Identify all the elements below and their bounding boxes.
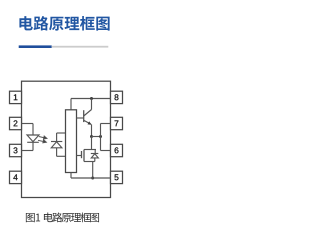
junction pin7/6 tie <box>99 135 102 138</box>
wire base drive <box>77 117 84 119</box>
divider gray segment <box>52 46 109 48</box>
divider blue segment <box>19 45 52 48</box>
LED cathode bar <box>27 141 39 143</box>
photodiode PD1 cathode bar <box>51 141 62 143</box>
body diode D2 cathode bar <box>91 153 99 155</box>
wire source down to bottom rail <box>92 162 94 179</box>
wire control block top stub <box>70 99 72 110</box>
pin 8 box <box>111 91 123 103</box>
transistor Q1 collector diagonal <box>84 110 92 117</box>
wire output node to pin7/6 tie <box>92 136 101 138</box>
pin 6 box <box>111 144 123 156</box>
light emission arrow upper <box>39 136 47 139</box>
wire emitter down to output node <box>91 124 93 136</box>
caption 图1 电路原理框图 <box>26 212 99 222</box>
pin 1 box <box>10 91 22 103</box>
wire pin2 to LED anode <box>22 123 34 125</box>
LED D1 triangle <box>27 135 39 142</box>
wire gate drive <box>77 155 82 157</box>
wire to pin3 <box>22 150 34 152</box>
wire tie pin7 to pin6 <box>100 124 102 151</box>
control circuit block U1 <box>66 110 77 173</box>
wire node down to MOSFET drain <box>91 137 93 150</box>
wire control block bottom stub <box>70 173 72 179</box>
body diode D2 anode lead <box>94 158 96 162</box>
pin 4 box <box>10 171 22 183</box>
body diode D2 triangle <box>91 154 98 158</box>
wire photodiode anode to block <box>57 155 66 157</box>
title 电路原理框图 <box>19 16 109 31</box>
wire photodiode anode down <box>56 148 58 157</box>
MOSFET Q2 channel bar <box>83 150 85 162</box>
transistor Q1 emitter diagonal <box>84 120 91 124</box>
pin 5 box <box>111 171 123 183</box>
pin 2 box <box>10 117 22 129</box>
light emission arrow lower <box>38 140 46 143</box>
top rail to pin 8 <box>71 98 111 100</box>
pin 7 box <box>111 117 123 129</box>
bottom rail to pin 5 <box>71 177 111 179</box>
transistor Q1 emitter arrowhead <box>88 121 92 124</box>
wire to pin 7 <box>101 123 111 125</box>
junction bottom rail <box>91 177 94 180</box>
body diode D2 cathode lead <box>94 150 96 154</box>
wire to pin 6 <box>101 150 111 152</box>
photodiode PD1 triangle <box>51 142 62 148</box>
MOSFET Q2 gate bar <box>81 151 83 158</box>
junction output node left <box>90 135 93 138</box>
junction top rail / collector <box>90 97 93 100</box>
MOSFET Q2 drain bar <box>84 149 96 151</box>
wire photodiode cathode to block <box>57 132 66 134</box>
transistor Q1 base bar <box>83 110 85 122</box>
MOSFET Q2 source bar <box>84 161 95 163</box>
pin 3 box <box>10 144 22 156</box>
wire LED cathode down <box>32 142 34 150</box>
IC package outline <box>22 81 111 197</box>
wire collector to top rail <box>91 99 93 110</box>
